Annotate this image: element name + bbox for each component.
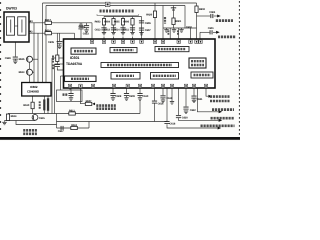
capacitor C603: [79, 25, 89, 33]
resistor R612: [71, 124, 78, 130]
block: signal input select (2 lines): [189, 58, 206, 68]
svg-text:C610: C610: [142, 95, 148, 98]
transistor V602: [32, 115, 45, 121]
block: output signal control: [110, 48, 137, 53]
block: field freq control: [65, 76, 97, 82]
transistor V603: [19, 69, 33, 75]
right bottom pins: [154, 88, 156, 101]
vertical x38: [37, 33, 39, 82]
ground bottom-left: [2, 122, 6, 125]
block: main power control: [71, 48, 96, 54]
capacitor C604: [209, 11, 220, 18]
svg-text:R605: R605: [114, 20, 120, 23]
capacitor C601: [208, 27, 220, 34]
R602 vertical: [196, 3, 198, 39]
svg-text:C611: C611: [123, 28, 129, 31]
svg-text:C603: C603: [79, 26, 85, 29]
R620 column: [154, 3, 156, 39]
svg-text:R614: R614: [11, 115, 17, 118]
2-line input caption: [208, 95, 212, 98]
bottom pin boxes: [68, 84, 207, 87]
grounds on rail y28: [164, 28, 183, 36]
svg-text:C620: C620: [182, 117, 188, 120]
resistor chain x57.3 from wire2: [56, 33, 58, 55]
detector column 4: resistor R606 + cap C611: [123, 19, 135, 36]
resistor R620: [146, 11, 156, 18]
svg-text:R601: R601: [175, 20, 181, 23]
bottom C617/R612 loop: [57, 127, 90, 129]
op-chip IC601 TDA9370: [64, 39, 216, 88]
resistor R616: [45, 30, 52, 35]
svg-text:C605: C605: [48, 41, 54, 44]
vertical x92 to IC pin: [91, 23, 93, 39]
R610 connections: [32, 96, 34, 102]
gnd pin x70 none; R607 pin: [81, 88, 86, 104]
svg-text:DW703: DW703: [6, 6, 17, 10]
ground rail y28: [163, 27, 197, 29]
caption 50Hz field text (2 lines): [96, 104, 116, 107]
R614: [7, 113, 9, 116]
top bus B: [46, 5, 185, 7]
capacitor C607: [139, 28, 151, 36]
svg-text:R610: R610: [23, 104, 29, 107]
C601 branch: [199, 32, 201, 39]
svg-text:C618: C618: [169, 123, 175, 126]
resistor R610: [23, 102, 34, 109]
capacitor C618 on pin167: [164, 121, 175, 126]
detector column 3: resistor R605 + cap C614: [114, 19, 126, 36]
svg-text:R602: R602: [199, 8, 205, 11]
caps below center: [112, 88, 114, 93]
detector caption (CJK blob): [100, 10, 135, 13]
DW703 pin stubs: [29, 21, 31, 23]
svg-text:C601: C601: [208, 27, 214, 30]
left bottom rails: [5, 120, 36, 122]
capacitor C623 (inverted gnd above, over IC): [78, 23, 89, 36]
caption row 2: [219, 110, 223, 113]
svg-text:R603: R603: [95, 20, 101, 23]
V601 chain: [29, 62, 31, 69]
block: right detect: [155, 47, 189, 52]
cap C603 stub: [86, 23, 88, 25]
svg-text:R606: R606: [123, 20, 129, 23]
bottom inner pin wires: [69, 82, 71, 89]
long bottom wire: [8, 113, 140, 115]
inductor on T601 top: [171, 7, 176, 10]
transistor V601: [19, 56, 33, 62]
capacitor C617: [58, 126, 64, 133]
brace under caption: [97, 14, 139, 15]
column pin stubs: [103, 37, 105, 41]
wire y121.5: [57, 121, 168, 123]
vertical x34: [33, 23, 35, 83]
svg-text:R620: R620: [146, 14, 152, 17]
ground pin172: [170, 101, 174, 104]
resistor R602: [195, 6, 206, 13]
capacitor C609 below pin126.5: [124, 93, 135, 101]
svg-text:C602: C602: [186, 26, 192, 29]
svg-text:R604: R604: [104, 20, 110, 23]
caption row 4: [218, 127, 222, 130]
resistor R617: [45, 19, 52, 24]
detector top link: [104, 16, 142, 18]
resistor R611: [69, 110, 76, 116]
svg-text:C609: C609: [129, 95, 135, 98]
wire2 corner down at 74.5: [74, 33, 76, 39]
page edge dashes left: [0, 2, 1, 130]
C604 branch: [197, 15, 211, 17]
long bar: scan/display: [101, 63, 179, 68]
page edge dashes right: [239, 1, 240, 135]
svg-text:C622: C622: [190, 109, 196, 112]
wire T2 row: [29, 32, 75, 34]
below IC: C625 box pin: [70, 88, 72, 93]
left IC pins: [52, 57, 64, 59]
wire T4 row: [29, 22, 92, 24]
capacitor C621 on pin194: [191, 96, 203, 103]
svg-text:C623: C623: [83, 33, 89, 36]
svg-text:C615: C615: [39, 117, 45, 120]
capacitor C620 on pin178.5: [176, 115, 188, 120]
detector columns: [103, 17, 105, 33]
svg-text:R613: R613: [19, 71, 25, 74]
crystal X601: [40, 98, 50, 111]
capacitor C605 plates and ground: [48, 41, 62, 49]
svg-text:C612: C612: [104, 28, 110, 31]
resistor R607 with diode arrow: [85, 100, 95, 106]
T601 left vertical: [162, 6, 164, 40]
detector column 2: resistor R604 + cap C612: [104, 19, 116, 36]
capacitor C605 to ground from wire2: [59, 33, 61, 41]
T601 label (rotated blob): [164, 17, 166, 24]
V602: [34, 114, 36, 115]
bottom frame band: [0, 137, 240, 140]
svg-text:IC601: IC601: [70, 56, 79, 60]
audio input text: [216, 19, 234, 22]
vertical x46 from bus B: [45, 6, 47, 83]
shield box with cap C623: [57, 90, 83, 102]
caption row 3: [219, 119, 223, 122]
capacitor C622 on pin186: [183, 107, 196, 114]
resistor R601: [172, 18, 182, 25]
svg-text:C606: C606: [145, 22, 151, 25]
svg-text:IC602: IC602: [30, 85, 38, 89]
capacitor C606: [139, 20, 151, 25]
svg-text:C619: C619: [166, 97, 172, 100]
resistor R621 (vertical, x57.3): [53, 55, 60, 70]
T601 right vertical: [184, 6, 186, 29]
wire y124.5: [16, 121, 57, 125]
vertical x42.5 from bus A: [42, 3, 44, 83]
svg-text:C608: C608: [115, 95, 121, 98]
svg-text:C613: C613: [95, 28, 101, 31]
junction box on bus A: [105, 2, 110, 6]
detector column 1: resistor R603 + cap C613: [95, 19, 107, 36]
svg-text:C607: C607: [145, 29, 151, 32]
svg-text:C616: C616: [158, 102, 164, 105]
capacitor C616 on pin154.5: [152, 101, 164, 106]
svg-text:C604: C604: [209, 11, 215, 14]
top bus A: [43, 2, 197, 4]
pin stubs up right: [169, 28, 171, 39]
capacitor C619 on pin163: [160, 95, 172, 102]
C606/C607 column: [141, 17, 143, 40]
cap up x81: [80, 29, 82, 39]
block: right bottom: [191, 72, 213, 78]
svg-text:C617: C617: [58, 130, 64, 133]
filter block DW703: [4, 6, 33, 42]
inner IC wires: [83, 54, 85, 76]
inverter chip IC602: [22, 83, 51, 97]
svg-text:R615: R615: [19, 58, 25, 61]
resistor R614: [6, 114, 17, 121]
T601 inner component vertical: [173, 6, 175, 19]
svg-text:C614: C614: [114, 28, 120, 31]
block: high freq control: [111, 73, 140, 80]
capacitor C610 below pin140: [137, 93, 148, 101]
svg-text:TDA9370A: TDA9370A: [66, 62, 83, 66]
svg-text:CD4069D: CD4069D: [27, 89, 39, 93]
svg-text:C528: C528: [5, 57, 11, 60]
top pin boxes: [90, 40, 202, 43]
C528 drop from DW703: [14, 42, 16, 57]
crystal connections: [43, 96, 45, 99]
block: line/field control: [151, 73, 179, 80]
bottom left caption (2 lines): [23, 129, 37, 132]
svg-text:C621: C621: [197, 98, 203, 101]
capacitor C528: [5, 57, 18, 64]
capacitor C608 below pin113: [110, 93, 121, 101]
video input text: [218, 36, 235, 39]
